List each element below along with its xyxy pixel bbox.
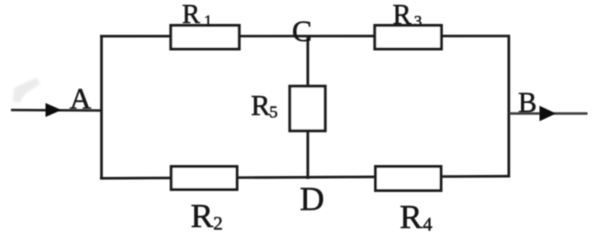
svg-text:D: D [300, 181, 325, 218]
svg-text:1: 1 [204, 13, 212, 30]
resistor R3 [375, 0, 442, 49]
svg-text:B: B [518, 88, 537, 119]
resistor R5 [251, 86, 325, 131]
wire: middle branch from node C to node D [306, 35, 309, 179]
wire: right vertical branch [507, 35, 510, 178]
svg-text:R: R [400, 199, 423, 236]
resistor R4 [376, 167, 442, 237]
svg-text:R: R [251, 90, 271, 122]
svg-text:5: 5 [269, 103, 278, 122]
svg-text:A: A [70, 83, 92, 116]
wire: top branch through R1, node C, R3 [100, 35, 510, 38]
wire: left vertical branch [100, 35, 103, 179]
svg-text:C: C [292, 15, 312, 48]
svg-text:4: 4 [423, 215, 433, 236]
current arrowhead at B [540, 106, 557, 121]
svg-text:2: 2 [213, 214, 223, 235]
wire: input lead into node A [11, 109, 101, 112]
wire: output lead from node B [509, 112, 588, 115]
svg-text:3: 3 [414, 14, 422, 31]
wire: bottom branch through R2, node D, R4 [100, 176, 510, 178]
current arrowhead at A [46, 103, 62, 117]
svg-text:R: R [191, 198, 214, 235]
resistor R2 [171, 167, 237, 236]
svg-text:R: R [393, 0, 412, 31]
svg-text:R: R [182, 0, 200, 29]
resistor R1 [171, 0, 239, 49]
